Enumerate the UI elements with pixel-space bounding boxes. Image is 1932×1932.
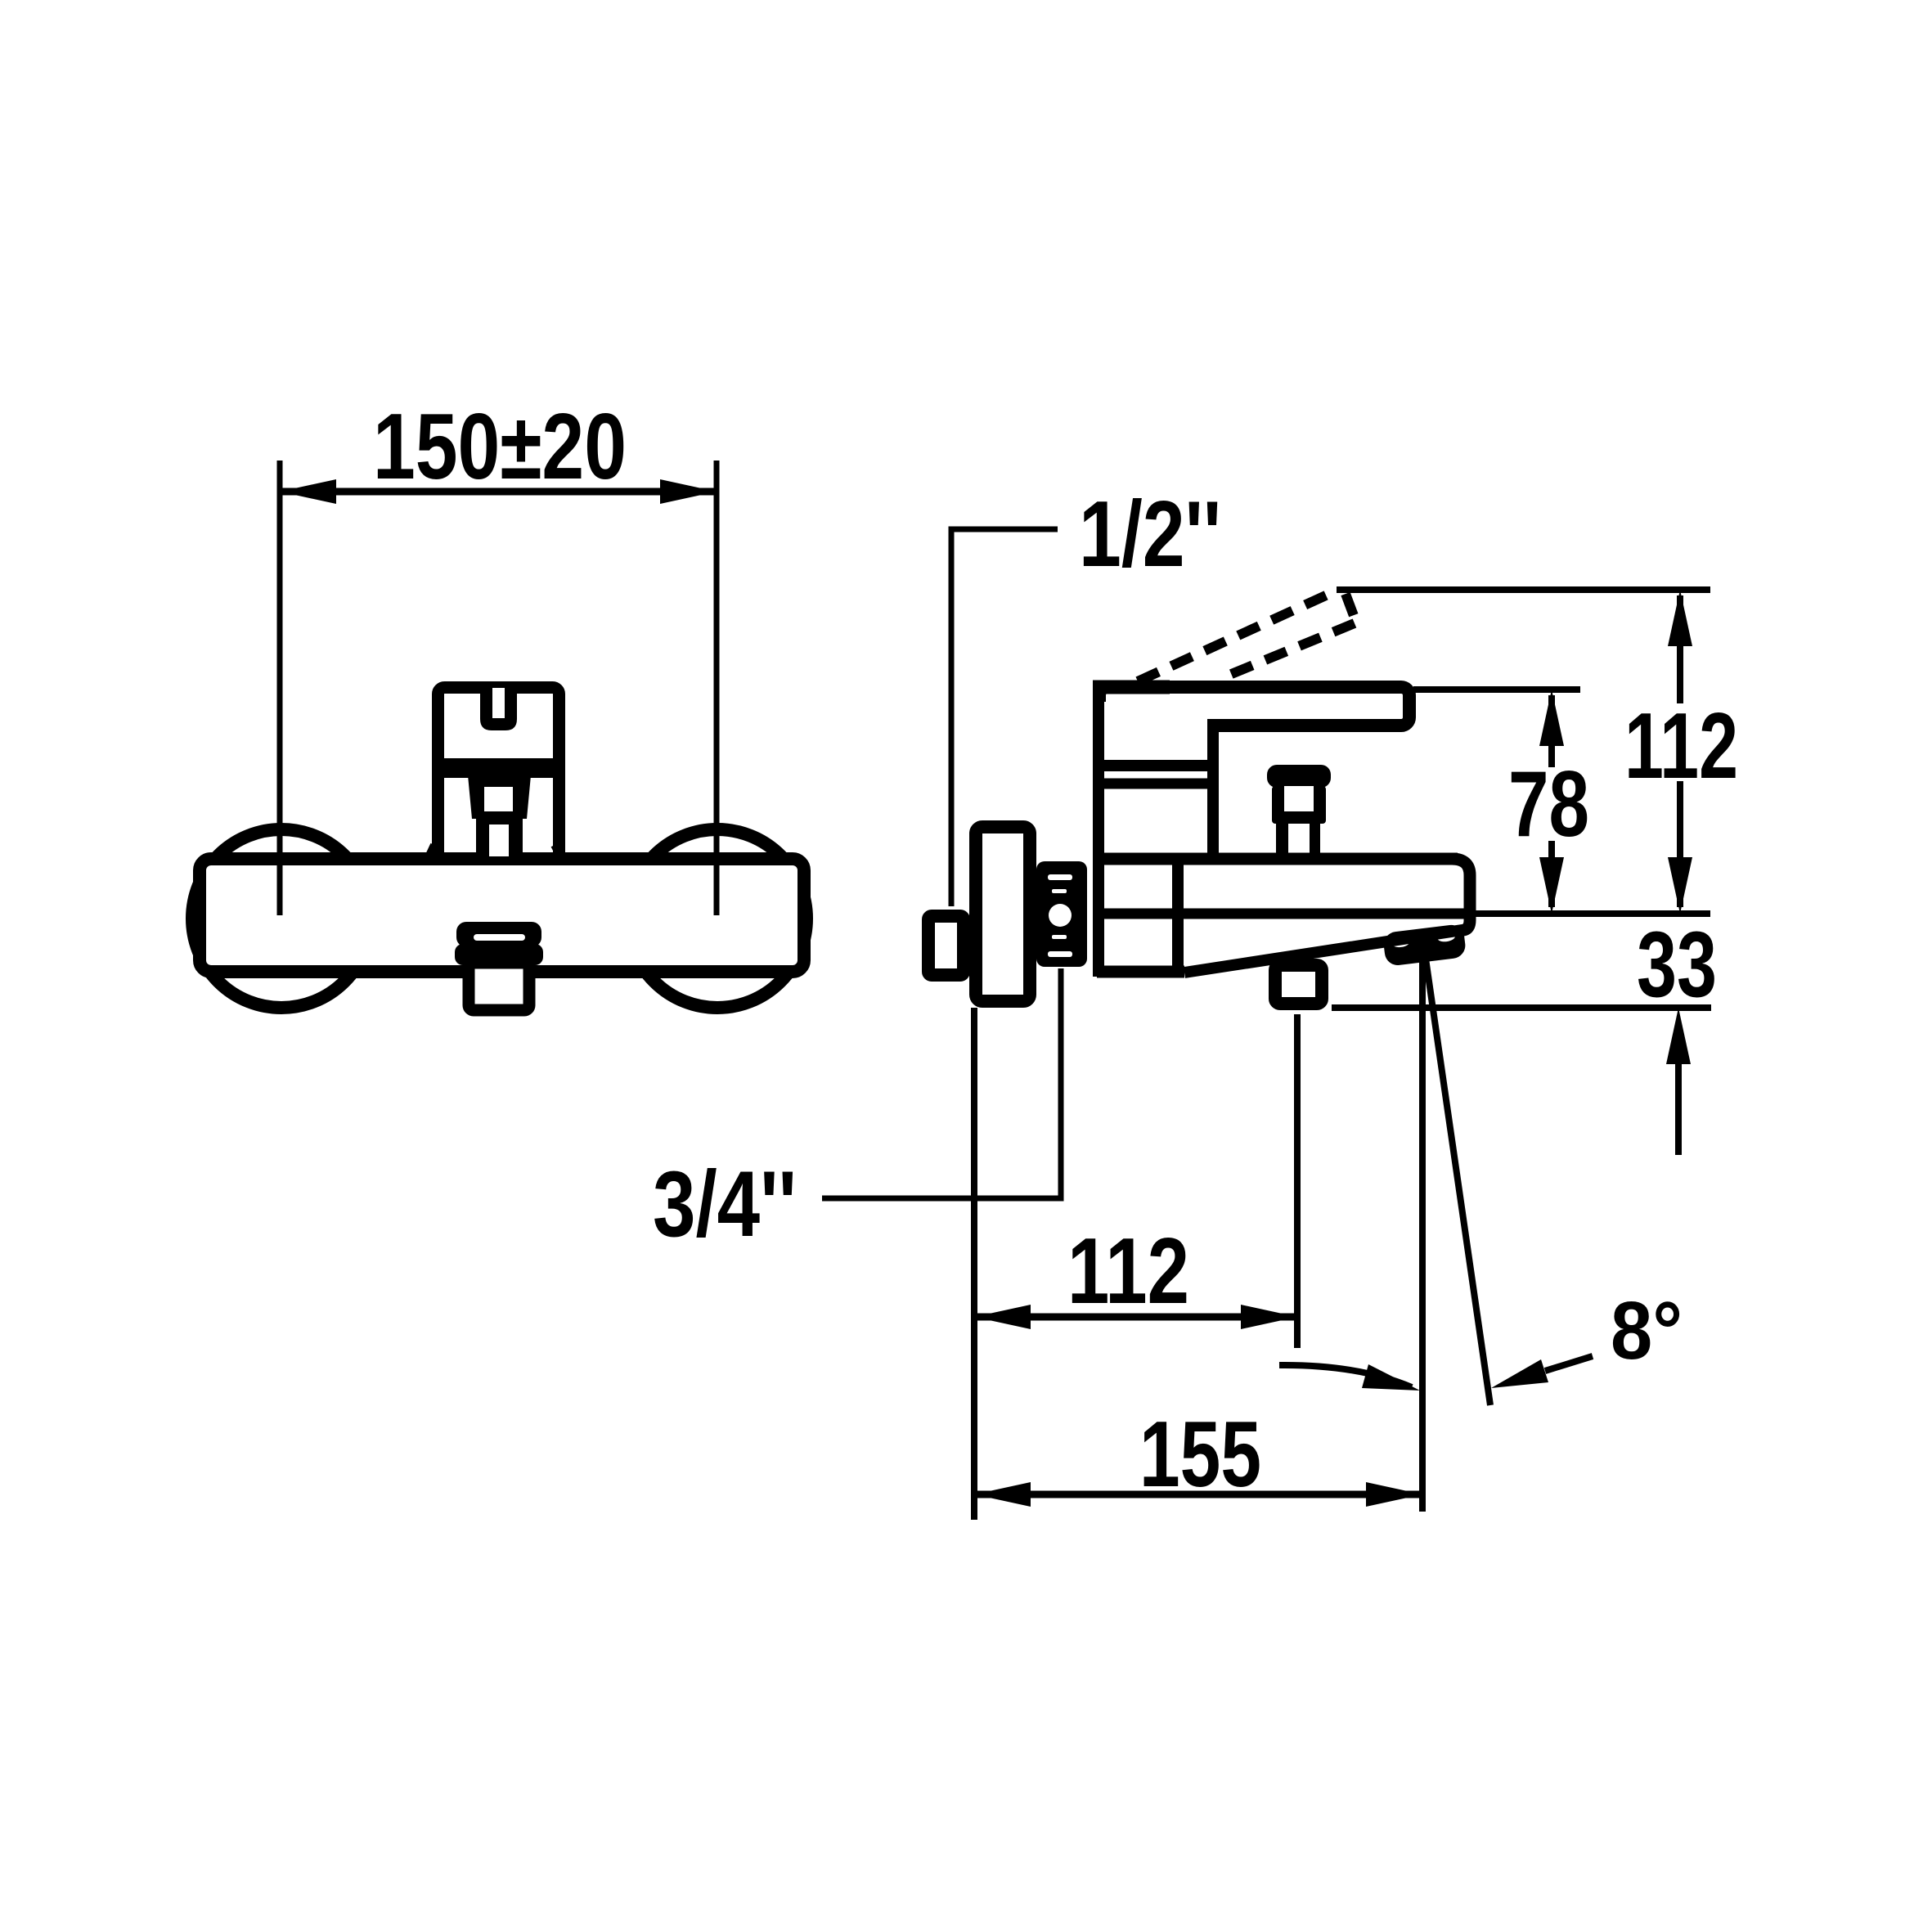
spout collar upper ring <box>456 922 541 947</box>
extension line left (150 dim) <box>277 461 283 915</box>
wall nipple 1/2'' <box>928 916 964 975</box>
faucet body (front view) <box>200 859 804 972</box>
spout collar white slit <box>474 934 525 941</box>
leader line 3/4'' <box>822 968 1061 1198</box>
cartridge housing upper box <box>438 688 559 771</box>
body top edge <box>1093 853 1458 865</box>
cartridge lower box left wall <box>432 770 444 855</box>
slanted 8 degree reference line <box>1426 959 1490 1405</box>
hand-shower outlet block below body <box>1275 965 1322 1004</box>
diverter knob cap <box>1267 765 1331 788</box>
extension line wall face (bottom dims) <box>971 1008 977 1520</box>
dimension 78 vertical <box>1548 695 1555 767</box>
right mounting escutcheon circle <box>628 829 806 1008</box>
dashed raised lever top line <box>1138 591 1337 681</box>
extension line spout tip vertical <box>1419 961 1426 1512</box>
body internal vertical line <box>1172 865 1184 967</box>
lever bar <box>1099 687 1409 726</box>
dimension 112 horizontal <box>974 1314 1297 1321</box>
diverter knob stem right <box>1310 824 1320 857</box>
svg-text:155: 155 <box>1139 1403 1261 1507</box>
8 degree arc <box>1279 1365 1412 1387</box>
8 degree pointer arrow <box>1545 1356 1593 1371</box>
handle/body left edge <box>1093 681 1104 977</box>
cartridge lower box right wall <box>553 770 565 855</box>
svg-text:78: 78 <box>1508 753 1589 856</box>
dashed raised lever end <box>1346 594 1355 620</box>
extension line right (150 dim) <box>714 461 720 915</box>
diverter knob stem left <box>1276 824 1288 857</box>
dimension line 150±20 <box>280 488 717 496</box>
svg-text:8°: 8° <box>1611 1285 1683 1377</box>
cartridge band <box>432 758 565 778</box>
svg-text:112: 112 <box>1624 694 1738 798</box>
svg-text:112: 112 <box>1067 1220 1189 1323</box>
extension line outlet center (bottom 112) <box>1294 1014 1301 1348</box>
dimension 155 horizontal <box>974 1491 1422 1498</box>
cartridge top slot <box>480 688 517 730</box>
svg-text:3/4'': 3/4'' <box>653 1152 797 1256</box>
cartridge housing top line <box>1099 779 1213 789</box>
dashed raised lever bottom line <box>1220 623 1355 679</box>
dimension 33 arrow below <box>1666 1008 1691 1064</box>
spout aerator end cap <box>1382 923 1467 967</box>
svg-text:1/2'': 1/2'' <box>1079 483 1221 586</box>
extension line outlet bottom <box>1332 1004 1711 1011</box>
wall escutcheon plate <box>976 827 1030 1001</box>
connection nut 3/4'' <box>1036 861 1087 967</box>
handle column right edge <box>1207 726 1219 857</box>
body mid line (spout top) <box>1093 909 1467 919</box>
diverter knob body <box>1272 786 1326 824</box>
cartridge base right flare <box>555 845 561 857</box>
spout sloped bottom edge (8°) <box>1184 929 1467 973</box>
body bottom edge (wall side) <box>1097 966 1184 978</box>
body top right corner <box>1452 859 1470 930</box>
leader line 1/2'' <box>951 529 1058 906</box>
extension line lever top <box>1413 686 1580 693</box>
dimension 112 vertical <box>1677 595 1683 703</box>
svg-text:33: 33 <box>1637 913 1717 1017</box>
extension line body mid <box>1470 910 1710 917</box>
cartridge stem lower tube <box>476 819 523 856</box>
svg-text:150±20: 150±20 <box>373 395 627 499</box>
cartridge base left flare <box>429 845 434 857</box>
cartridge stem upper block <box>468 775 531 819</box>
spout square outlet (front view) <box>469 963 529 1010</box>
extension line raised lever top <box>1337 586 1710 593</box>
spout collar lower ring <box>455 944 543 965</box>
left mounting escutcheon circle <box>192 829 371 1008</box>
handle skirt joint line <box>1099 760 1213 771</box>
